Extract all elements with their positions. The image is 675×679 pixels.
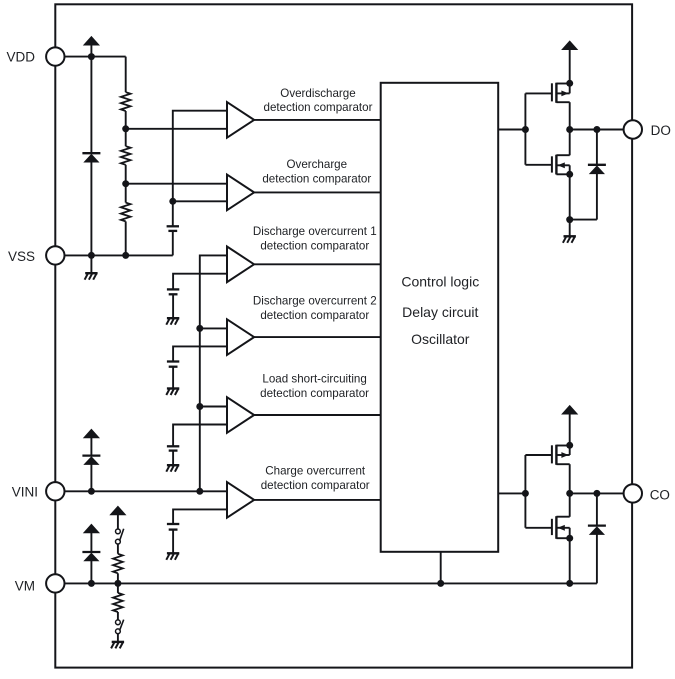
wire U5 output <box>254 414 380 416</box>
capacitor C5 <box>167 524 179 530</box>
wire node B to R3 <box>125 184 127 203</box>
op-amp U4 discharge overcurrent 2 detection comparator <box>227 319 254 355</box>
ground C3 <box>166 367 179 395</box>
diode D3 VM clamp <box>82 552 100 561</box>
wire C1 to VSS rail <box>172 231 174 256</box>
ground VSS pin <box>85 255 98 279</box>
wire DO gate vertical <box>524 93 526 164</box>
wire Q4 gate lead <box>525 527 552 529</box>
wire R1 to node A <box>125 111 127 129</box>
ground C5 <box>166 530 179 560</box>
wire comp1 bottom input <box>126 128 227 130</box>
DO VDD arrow <box>561 40 578 83</box>
resistor R3 <box>121 203 131 222</box>
wire R5 to SW2 <box>117 612 119 620</box>
label U4 <box>253 295 377 322</box>
op-amp U2 overcharge detection comparator <box>227 175 254 211</box>
wire R4 to VM <box>117 573 119 583</box>
svg-text:Charge overcurrent: Charge overcurrent <box>265 465 366 478</box>
op-amp U3 discharge overcurrent 1 detection comparator <box>227 247 254 283</box>
node bus-comp4 junction <box>196 325 203 332</box>
wire comp5 bottom input <box>173 425 227 447</box>
svg-text:detection comparator: detection comparator <box>262 172 371 185</box>
svg-text:Delay circuit: Delay circuit <box>402 304 478 320</box>
capacitor C2 <box>167 289 179 294</box>
wire CO output line <box>570 492 624 494</box>
wire comp2 bottom input <box>173 200 227 202</box>
ground C4 <box>166 451 179 472</box>
wire control block to VM <box>440 552 442 584</box>
wire Q4 source to VM <box>569 538 571 583</box>
wire Q3 drain to CO node <box>569 464 571 517</box>
node Q3 source-body <box>566 442 573 449</box>
label U2 <box>262 158 371 185</box>
node Q2 source-body <box>566 171 573 178</box>
pin CO <box>624 484 670 502</box>
wire DO output line <box>570 129 624 131</box>
node B (R2/R3) <box>122 180 129 187</box>
node VSS-clamp junction <box>88 252 95 259</box>
wire D5 cathode <box>596 493 598 525</box>
wire comp5 top input <box>200 406 227 408</box>
VM clamp arrow <box>83 524 100 552</box>
node VM-Q4 junction <box>566 580 573 587</box>
label U5 <box>260 373 369 400</box>
wire clamp column lower <box>90 162 92 256</box>
node block-VM junction <box>437 580 444 587</box>
svg-text:VINI: VINI <box>12 484 38 499</box>
wire VDD rail <box>55 56 125 58</box>
node Q1 source-body <box>566 80 573 87</box>
wire comp6 bottom input <box>173 509 227 524</box>
wire DO gate drive horizontal <box>498 129 525 131</box>
node VSS-R3 junction <box>122 252 129 259</box>
CO VDD arrow <box>561 405 578 445</box>
wire comp2 top input <box>126 183 227 185</box>
node bus-VINI junction <box>196 488 203 495</box>
switch SW1 <box>116 529 124 544</box>
control logic block <box>381 83 499 552</box>
wire Q3 gate lead <box>525 454 552 456</box>
wire D5 anode <box>596 534 598 583</box>
node VM-pull column junction <box>114 580 121 587</box>
pin DO <box>624 120 671 138</box>
VM pull-up arrow <box>109 506 126 529</box>
pin VM <box>15 574 65 594</box>
resistor R5 <box>113 593 123 612</box>
transistor Q2 (NMOS) <box>552 155 570 175</box>
node A (R1/R2) <box>122 125 129 132</box>
capacitor C4 <box>167 446 179 450</box>
switch SW2 <box>116 620 124 634</box>
svg-text:VSS: VSS <box>8 249 35 264</box>
wire comp3 top input <box>200 255 227 491</box>
svg-text:Discharge overcurrent 1: Discharge overcurrent 1 <box>253 225 377 238</box>
op-amp U5 load short-circuiting detection comparator <box>227 397 254 433</box>
node aux-comp2 junction <box>169 198 176 205</box>
capacitor C3 <box>167 362 179 367</box>
label control block <box>401 274 479 347</box>
wire U2 output <box>254 191 380 193</box>
label U6 <box>261 465 370 492</box>
pin VDD <box>6 47 64 65</box>
wire D3 to VM <box>90 561 92 584</box>
node DO output <box>566 126 573 133</box>
svg-text:CO: CO <box>650 487 670 502</box>
wire R3 to VSS <box>125 221 127 255</box>
svg-text:detection comparator: detection comparator <box>264 101 373 114</box>
wire U4 output <box>254 336 380 338</box>
wire VDD to R1 <box>125 57 127 93</box>
wire VM rail <box>55 582 597 584</box>
wire VINI rail <box>55 490 227 492</box>
wire comp4 bottom input <box>173 346 227 361</box>
wire VSS rail <box>55 254 173 256</box>
wire SW1 to R4 <box>117 544 119 554</box>
wire R2 to node B <box>125 165 127 184</box>
wire D4 cathode <box>596 130 598 165</box>
svg-text:detection comparator: detection comparator <box>260 309 369 322</box>
svg-text:Overdischarge: Overdischarge <box>280 87 355 100</box>
wire clamp column upper <box>90 57 92 154</box>
wire Q1 drain to DO node <box>569 102 571 155</box>
wire Q2 source down <box>569 174 571 219</box>
svg-text:Discharge overcurrent 2: Discharge overcurrent 2 <box>253 295 377 308</box>
op-amp U6 charge overcurrent detection comparator <box>227 482 254 518</box>
wire node A to R2 <box>125 129 127 146</box>
resistor R4 <box>113 554 123 574</box>
svg-text:Load short-circuiting: Load short-circuiting <box>262 373 366 386</box>
node CO output <box>566 490 573 497</box>
diode D5 CO clamp <box>588 526 606 535</box>
ground DO driver <box>563 220 576 243</box>
transistor Q3 (PMOS) <box>552 445 570 465</box>
resistor R2 <box>121 146 131 165</box>
node CO-diode junction <box>593 490 600 497</box>
wire to D4 anode <box>570 219 597 221</box>
node VDD-clamp junction <box>88 53 95 60</box>
wire comp4 top input <box>200 327 227 329</box>
resistor R1 <box>121 92 131 111</box>
svg-text:VDD: VDD <box>6 49 35 64</box>
svg-text:detection comparator: detection comparator <box>260 239 369 252</box>
svg-text:Oscillator: Oscillator <box>411 331 470 347</box>
svg-text:detection comparator: detection comparator <box>261 479 370 492</box>
ground C2 <box>166 294 179 324</box>
node DO-diode junction <box>593 126 600 133</box>
diode D1 VDD-VSS clamp <box>82 153 100 162</box>
diode D4 DO clamp <box>588 165 606 174</box>
pin VINI <box>12 482 65 500</box>
svg-text:Control logic: Control logic <box>401 274 479 290</box>
label U1 <box>264 87 373 114</box>
wire CO gate drive horizontal <box>498 492 525 494</box>
pin VSS <box>8 246 65 264</box>
svg-text:DO: DO <box>651 123 671 138</box>
op-amp U1 overdischarge detection comparator <box>227 102 254 138</box>
transistor Q4 (NMOS) <box>552 516 570 539</box>
ground VM pull-down <box>111 634 124 649</box>
VINI clamp arrow <box>83 429 100 456</box>
svg-text:detection comparator: detection comparator <box>260 387 369 400</box>
wire VM to R5 <box>117 583 119 593</box>
wire Q1 gate lead <box>525 92 552 94</box>
wire CO gate vertical <box>524 455 526 528</box>
diode D2 VINI clamp <box>82 456 100 465</box>
wire U6 output <box>254 499 380 501</box>
node VINI-clamp junction <box>88 488 95 495</box>
wire D4 anode <box>596 173 598 219</box>
node bus-comp5 junction <box>196 403 203 410</box>
node CO gate drive <box>522 490 529 497</box>
capacitor C1 <box>167 226 179 231</box>
wire D2 to VINI <box>90 464 92 491</box>
node DO gate drive <box>522 126 529 133</box>
node Q4 source-body <box>566 535 573 542</box>
wire aux to C1 <box>172 201 174 226</box>
node DO source-diode-ground <box>566 216 573 223</box>
svg-text:VM: VM <box>15 579 35 594</box>
svg-text:Overcharge: Overcharge <box>287 158 348 171</box>
wire U1 output <box>254 119 380 121</box>
wire U3 output <box>254 263 380 265</box>
wire comp3 bottom input <box>173 274 227 290</box>
wire comp1 top input <box>173 111 227 202</box>
wire Q2 gate lead <box>525 164 552 166</box>
node VM-clamp junction <box>88 580 95 587</box>
label U3 <box>253 225 377 252</box>
VDD supply arrow <box>83 36 100 57</box>
transistor Q1 (PMOS) <box>552 83 570 103</box>
